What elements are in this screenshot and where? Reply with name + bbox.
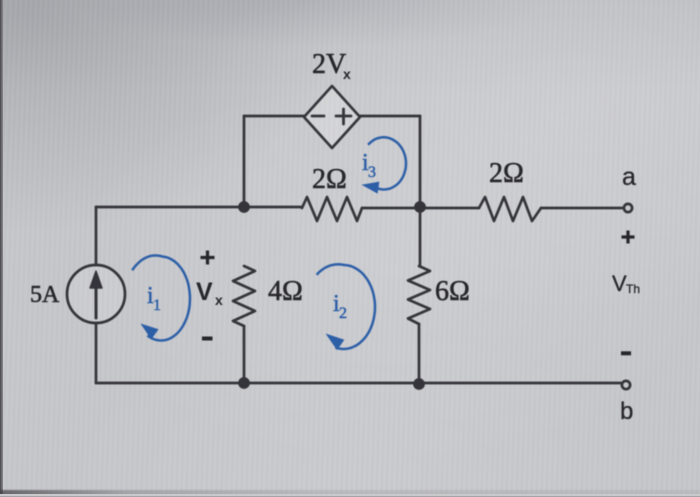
wire bottom horizontal <box>96 382 621 385</box>
svg-text:Th: Th <box>626 282 640 296</box>
minus sign inside diamond <box>312 115 324 118</box>
label plus of Vth <box>622 231 635 244</box>
current source I1 5A circle <box>67 265 125 323</box>
svg-text:b: b <box>620 398 633 425</box>
wire right resistor to terminal a <box>541 207 622 210</box>
mesh current i3 arc <box>368 137 406 189</box>
svg-text:V: V <box>612 271 627 296</box>
junction node at 420,207 <box>414 201 426 213</box>
svg-text:2Ω: 2Ω <box>489 158 524 189</box>
wire node down to 6ohm <box>419 208 422 266</box>
wire diamond right lead <box>360 115 420 118</box>
resistor R 6ohm vertical <box>408 266 430 324</box>
terminal b circle <box>622 381 630 389</box>
plus sign inside diamond <box>336 109 351 124</box>
junction node at 244,207 <box>238 201 250 213</box>
mesh current i2 arrowhead <box>326 334 345 351</box>
wire vertical diamond-left branch <box>243 116 246 207</box>
label minus of Vth <box>621 351 631 355</box>
wire top mid between node and 2ohm resistor <box>244 206 302 209</box>
wire diamond left lead <box>244 115 304 118</box>
wire node to right 2ohm resistor <box>420 207 479 210</box>
wire left rail upper <box>95 207 98 265</box>
photo left edge <box>0 0 3 497</box>
svg-text:a: a <box>622 163 636 191</box>
mesh current i1 arrowhead <box>141 324 159 340</box>
wire between middle resistor and node <box>362 207 420 210</box>
junction node at 244,383 <box>238 377 250 389</box>
resistor R 4ohm vertical <box>233 266 255 326</box>
wire left rail lower <box>95 323 98 383</box>
terminal a circle <box>624 204 632 212</box>
svg-text:x: x <box>215 292 223 308</box>
svg-text:3: 3 <box>368 164 376 181</box>
svg-text:V: V <box>196 278 213 306</box>
svg-text:2Ω: 2Ω <box>312 164 347 195</box>
resistor R 2ohm right <box>479 197 541 221</box>
label plus of Vx <box>201 251 215 265</box>
resistor R 2ohm middle <box>302 197 362 221</box>
label minus of Vx <box>202 337 213 341</box>
photo bottom dark strip <box>0 490 700 495</box>
mesh current i3 arrowhead <box>362 182 380 194</box>
wire 4ohm to bottom node <box>243 326 246 383</box>
dependent source 2Vx diamond <box>304 86 360 148</box>
junction node at 419,384 <box>413 378 425 390</box>
svg-text:6Ω: 6Ω <box>435 276 470 307</box>
svg-text:5A: 5A <box>30 282 60 308</box>
wire top-left horizontal <box>96 206 244 209</box>
current source arrow <box>95 286 98 318</box>
wire 6ohm to bottom node <box>418 324 421 384</box>
svg-text:2: 2 <box>339 305 347 322</box>
wire vertical from diamond right down to node <box>419 116 422 207</box>
svg-text:2V: 2V <box>312 49 346 80</box>
mesh current i1 arc <box>132 256 190 341</box>
mesh current i2 arc <box>317 264 375 349</box>
svg-text:1: 1 <box>153 297 161 314</box>
svg-text:x: x <box>343 66 351 82</box>
svg-text:4Ω: 4Ω <box>268 276 303 307</box>
